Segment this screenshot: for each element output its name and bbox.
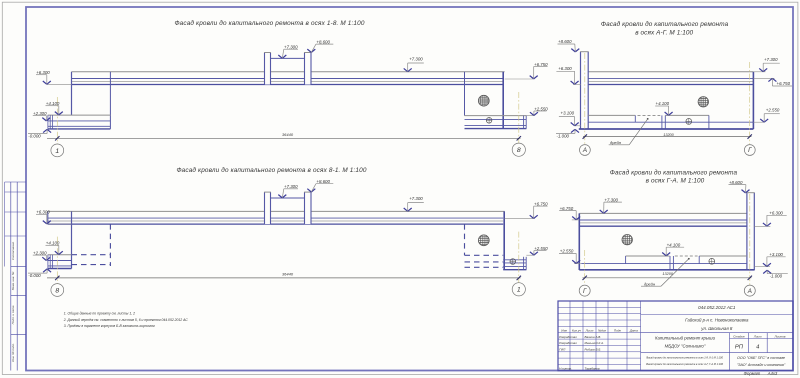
svg-text:Кол.уч: Кол.уч <box>572 329 581 333</box>
svg-text:36440: 36440 <box>282 271 294 276</box>
svg-text:Фасад кровли до капитального р: Фасад кровли до капитального ремонта в о… <box>174 19 364 27</box>
svg-text:2. Данный чертёж см. совместн: 2. Данный чертёж см. совместно с листом … <box>63 318 189 322</box>
svg-text:4: 4 <box>756 345 759 351</box>
svg-text:ГИП: ГИП <box>559 348 566 352</box>
svg-text:+2.300: +2.300 <box>33 250 47 255</box>
svg-text:+2.550: +2.550 <box>560 249 574 254</box>
svg-text:Фасад кровли до капитального р: Фасад кровли до капитального ремонта в о… <box>176 166 366 174</box>
svg-text:-1.000: -1.000 <box>770 274 783 279</box>
svg-text:+6.300: +6.300 <box>558 66 572 71</box>
svg-text:3. Проёмы в парапете корпусов: 3. Проёмы в парапете корпусов Б-В заложи… <box>64 324 156 328</box>
svg-text:Г: Г <box>583 288 587 295</box>
svg-text:Рубцов В.Б.: Рубцов В.Б. <box>585 348 602 352</box>
svg-text:Подп: Подп <box>614 329 622 333</box>
svg-text:МБДОУ "Солнышко": МБДОУ "Солнышко" <box>665 344 706 349</box>
svg-text:+7.300: +7.300 <box>284 44 298 49</box>
svg-text:Гайский р-н с. Новониколаевка: Гайский р-н с. Новониколаевка <box>685 318 749 323</box>
svg-text:+7.300: +7.300 <box>764 57 778 62</box>
svg-text:+2.550: +2.550 <box>534 106 548 111</box>
svg-text:Взам. инв. №: Взам. инв. № <box>11 271 15 290</box>
svg-text:+3.100: +3.100 <box>561 111 575 116</box>
svg-text:+6.750: +6.750 <box>534 201 548 206</box>
svg-text:ООО "ОКБ" ПГС" в составе: ООО "ОКБ" ПГС" в составе <box>737 356 785 360</box>
svg-text:Тарабанов: Тарабанов <box>585 367 600 371</box>
svg-text:+7.300: +7.300 <box>284 184 298 189</box>
svg-text:А: А <box>582 147 587 154</box>
svg-text:-0.000: -0.000 <box>28 134 41 139</box>
svg-text:-1.000: -1.000 <box>557 133 570 138</box>
svg-text:ул. Школьная 8: ул. Школьная 8 <box>700 326 733 331</box>
svg-text:+6.750: +6.750 <box>777 81 791 86</box>
svg-text:дрейн: дрейн <box>644 281 656 286</box>
svg-text:13200: 13200 <box>662 272 673 276</box>
svg-text:+8.600: +8.600 <box>316 39 330 44</box>
svg-text:+6.300: +6.300 <box>36 210 50 215</box>
svg-text:"ЗАО" Астлайн и компания": "ЗАО" Астлайн и компания" <box>737 363 786 367</box>
svg-text:Фасад кровли до капитального р: Фасад кровли до капитального ремонта в о… <box>646 355 723 359</box>
svg-text:+8.600: +8.600 <box>316 179 330 184</box>
svg-text:8: 8 <box>517 147 521 154</box>
svg-text:дрейн: дрейн <box>610 140 622 145</box>
svg-text:Разработал: Разработал <box>559 335 577 339</box>
svg-text:8: 8 <box>55 287 59 294</box>
svg-text:+7.300: +7.300 <box>604 197 618 202</box>
svg-text:+2.550: +2.550 <box>766 108 780 113</box>
svg-text:Дата: Дата <box>629 329 638 333</box>
svg-text:+7.300: +7.300 <box>409 196 423 201</box>
svg-text:Фасад кровли до капитального р: Фасад кровли до капитального ремонта в о… <box>646 362 724 366</box>
svg-text:№док: №док <box>598 329 607 333</box>
svg-text:+6.300: +6.300 <box>36 70 50 75</box>
svg-text:+4.100: +4.100 <box>656 101 670 106</box>
svg-text:1: 1 <box>517 287 521 294</box>
svg-text:А4х3: А4х3 <box>767 371 778 376</box>
svg-text:+4.100: +4.100 <box>667 242 681 247</box>
svg-text:+4.100: +4.100 <box>46 241 60 246</box>
svg-text:Фасад кровли до капитального р: Фасад кровли до капитального ремонта <box>610 169 738 177</box>
svg-text:044.052.2012 АС1: 044.052.2012 АС1 <box>698 305 736 310</box>
svg-text:Капитальный ремонт крыши: Капитальный ремонт крыши <box>655 335 716 340</box>
svg-text:+8.600: +8.600 <box>558 39 572 44</box>
svg-text:+4.100: +4.100 <box>46 101 60 106</box>
svg-text:Г: Г <box>748 147 752 154</box>
svg-text:+7.300: +7.300 <box>409 56 423 61</box>
svg-text:36440: 36440 <box>282 132 294 137</box>
svg-text:Н.контр.: Н.контр. <box>559 367 572 371</box>
svg-text:1: 1 <box>55 148 59 155</box>
svg-text:13200: 13200 <box>663 133 674 137</box>
svg-text:Стадия: Стадия <box>733 334 745 338</box>
svg-text:+6.750: +6.750 <box>560 206 574 211</box>
svg-text:+3.100: +3.100 <box>769 252 783 257</box>
svg-text:в осях Г-А. М 1:100: в осях Г-А. М 1:100 <box>646 177 705 184</box>
svg-text:Фасад кровли до капитального р: Фасад кровли до капитального ремонта <box>601 20 729 28</box>
svg-text:в осях А-Г. М 1:100: в осях А-Г. М 1:100 <box>635 29 693 36</box>
svg-text:Вахнин А.В.: Вахнин А.В. <box>585 335 602 339</box>
svg-text:+2.300: +2.300 <box>33 111 47 116</box>
svg-text:+8.600: +8.600 <box>729 180 743 185</box>
svg-text:Формат: Формат <box>744 371 761 376</box>
svg-text:Подп. и дата: Подп. и дата <box>11 305 15 324</box>
svg-text:Инв. № подл.: Инв. № подл. <box>11 343 15 362</box>
svg-text:+2.550: +2.550 <box>534 246 548 251</box>
svg-text:Разработал: Разработал <box>559 341 577 345</box>
svg-text:+6.300: +6.300 <box>769 211 783 216</box>
svg-text:Лист: Лист <box>585 329 594 333</box>
svg-text:Лист: Лист <box>753 334 762 338</box>
svg-text:Изм: Изм <box>561 329 567 333</box>
svg-text:-0.000: -0.000 <box>28 273 41 278</box>
svg-text:Меньшой К.А.: Меньшой К.А. <box>585 341 605 345</box>
svg-text:+6.750: +6.750 <box>534 62 548 67</box>
svg-text:РП: РП <box>735 345 744 351</box>
svg-text:А: А <box>747 288 752 295</box>
svg-text:Согласовано: Согласовано <box>11 242 15 261</box>
svg-text:Листов: Листов <box>774 334 786 338</box>
svg-text:1. Общие данные по проекту см: 1. Общие данные по проекту см. листы 1, … <box>64 312 135 316</box>
